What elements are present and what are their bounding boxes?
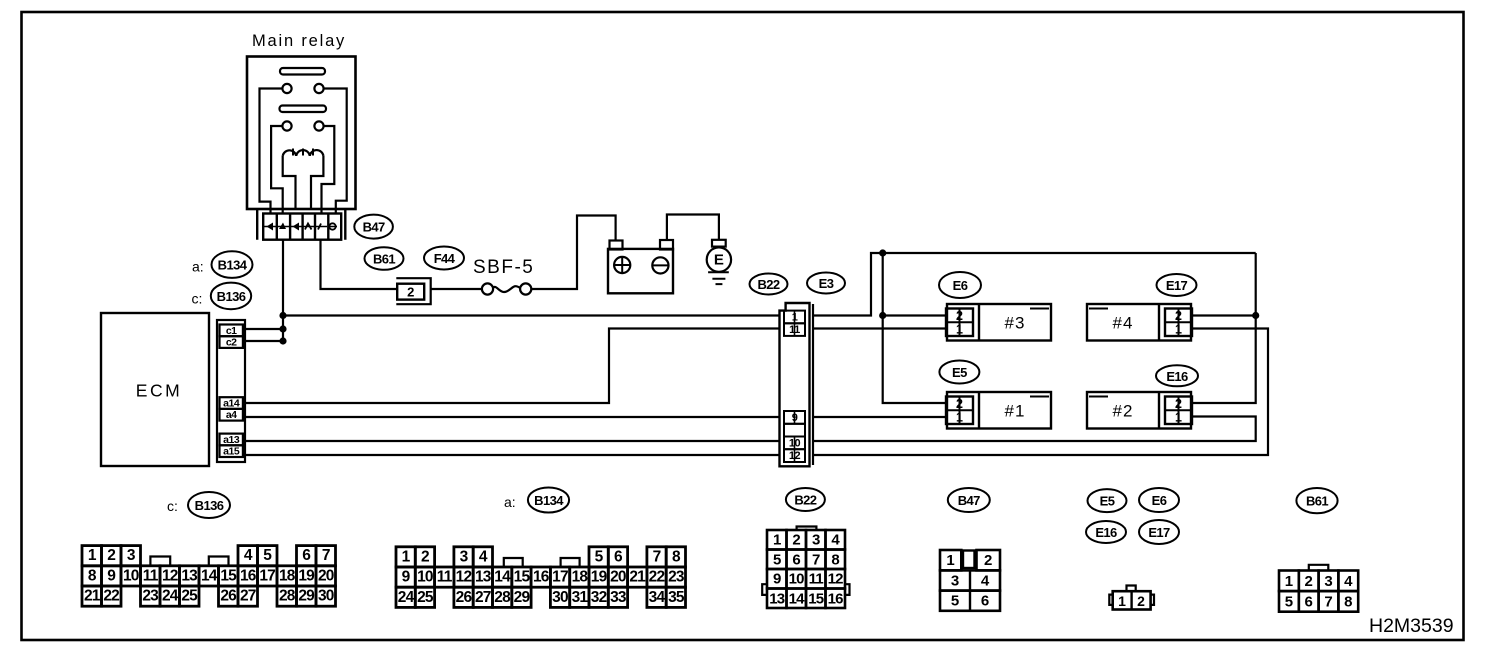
- svg-text:E: E: [714, 252, 724, 269]
- relay coil: [283, 150, 324, 156]
- svg-text:27: 27: [475, 589, 491, 606]
- svg-text:18: 18: [572, 569, 589, 586]
- svg-text:12: 12: [162, 567, 178, 584]
- battery: [608, 249, 673, 293]
- svg-text:21: 21: [84, 588, 101, 605]
- svg-text:14: 14: [494, 569, 511, 586]
- svg-text:12: 12: [456, 569, 472, 586]
- svg-text:F44: F44: [434, 251, 456, 266]
- wire battery - to ground: [667, 215, 719, 241]
- svg-text:B134: B134: [218, 258, 248, 273]
- svg-text:B47: B47: [363, 220, 385, 235]
- svg-text:33: 33: [610, 589, 627, 606]
- svg-text:a:: a:: [192, 259, 204, 275]
- B22 pin 11: [784, 323, 805, 336]
- relay box: [247, 57, 356, 210]
- svg-text:H2M3539: H2M3539: [1369, 615, 1454, 637]
- svg-text:23: 23: [668, 569, 685, 586]
- svg-text:B47: B47: [958, 493, 980, 508]
- svg-text:c2: c2: [226, 337, 237, 349]
- svg-text:6: 6: [614, 548, 623, 565]
- svg-text:a:: a:: [504, 494, 516, 510]
- svg-text:ECM: ECM: [136, 381, 182, 401]
- wire B22 pin12 to injector 4 pin 1: [813, 329, 1268, 456]
- svg-text:c:: c:: [167, 498, 178, 514]
- injector #2 (E16): [1087, 392, 1191, 429]
- svg-text:13: 13: [181, 567, 198, 584]
- svg-text:25: 25: [181, 588, 198, 605]
- label B22 (bottom): [786, 488, 825, 511]
- svg-text:7: 7: [1324, 593, 1332, 610]
- wire fuse to battery +: [531, 216, 615, 290]
- svg-text:22: 22: [649, 569, 665, 586]
- svg-text:E17: E17: [1166, 278, 1188, 293]
- svg-text:13: 13: [475, 569, 492, 586]
- svg-text:1: 1: [792, 311, 798, 323]
- svg-text:2: 2: [956, 397, 963, 411]
- svg-text:2: 2: [1175, 309, 1182, 323]
- svg-text:1: 1: [956, 323, 963, 337]
- relay coil body and fork legs: [283, 156, 324, 209]
- ground terminal E: [712, 240, 726, 247]
- svg-text:12: 12: [789, 450, 801, 462]
- svg-text:11: 11: [143, 567, 159, 584]
- fuse SBF-5: [482, 283, 493, 294]
- relay connector housing sides: [257, 209, 345, 240]
- relay connector strip: [263, 214, 341, 240]
- svg-text:17: 17: [552, 569, 568, 586]
- battery - terminal: [660, 240, 673, 250]
- svg-text:E5: E5: [1100, 494, 1115, 509]
- svg-text:21: 21: [629, 569, 646, 586]
- svg-text:2: 2: [792, 532, 800, 549]
- svg-text:16: 16: [828, 590, 844, 607]
- ECM pin c1: [220, 325, 243, 337]
- svg-text:B134: B134: [534, 493, 564, 508]
- relay wire contact2-left to pin: [271, 126, 283, 213]
- wire B22 pin1 up to top bus: [813, 253, 1256, 316]
- svg-text:15: 15: [514, 569, 531, 586]
- svg-text:5: 5: [595, 548, 604, 565]
- inline connector pin 2 (F44) bracket: [396, 278, 430, 304]
- svg-text:1: 1: [1118, 593, 1126, 609]
- svg-text:8: 8: [831, 551, 839, 568]
- svg-text:B22: B22: [794, 493, 816, 508]
- svg-text:2: 2: [407, 285, 414, 300]
- svg-text:11: 11: [789, 324, 800, 336]
- svg-text:3: 3: [951, 573, 959, 590]
- relay wire contact1-right to pin: [324, 89, 347, 214]
- label B47 (bottom): [948, 488, 990, 512]
- relay wire contact2-right to pin: [322, 126, 335, 213]
- svg-text:29: 29: [298, 588, 315, 605]
- svg-text:16: 16: [240, 567, 257, 584]
- svg-text:E5: E5: [952, 365, 967, 380]
- B22 pin 12: [784, 449, 805, 462]
- ECM pin a13: [220, 434, 243, 446]
- svg-text:7: 7: [812, 551, 820, 568]
- B134 index tabs: [504, 558, 523, 567]
- battery - symbol: [652, 257, 668, 273]
- svg-text:10: 10: [123, 567, 139, 584]
- relay wire contact1-left to pin: [260, 89, 283, 214]
- svg-text:2: 2: [1175, 397, 1182, 411]
- wire a14 to B22 pin 11: [243, 329, 779, 404]
- wire power bus junction A to B22 pin 1: [283, 314, 779, 316]
- label E5: [939, 361, 979, 384]
- svg-text:3: 3: [127, 547, 136, 564]
- svg-text:E17: E17: [1148, 525, 1170, 540]
- svg-text:15: 15: [808, 590, 824, 607]
- svg-text:16: 16: [533, 569, 550, 586]
- wire B22 pin11 to injector 3 pin 1: [813, 327, 946, 329]
- svg-text:10: 10: [417, 569, 433, 586]
- svg-text:6: 6: [792, 551, 800, 568]
- svg-text:34: 34: [649, 589, 666, 606]
- wire a4 to B22 pin 9: [243, 416, 779, 418]
- ECM pin a14: [220, 397, 243, 409]
- wire a15 to B22 pin 12: [243, 454, 779, 456]
- svg-text:8: 8: [88, 567, 97, 584]
- svg-text:5: 5: [951, 593, 959, 610]
- svg-text:5: 5: [773, 551, 781, 568]
- svg-text:8: 8: [1344, 593, 1352, 610]
- relay contact bar 1: [280, 68, 325, 75]
- svg-text:5: 5: [1285, 593, 1293, 610]
- svg-text:18: 18: [279, 567, 296, 584]
- connector B47 pinout: [940, 550, 961, 570]
- connector label F44: [424, 247, 464, 270]
- B61 pinout tab: [1309, 565, 1329, 571]
- ECM pin a15: [220, 445, 243, 457]
- B22 pin (blank): [784, 424, 805, 437]
- svg-text:2: 2: [984, 552, 992, 569]
- wire c1 to junction: [243, 328, 283, 330]
- svg-text:22: 22: [103, 588, 119, 605]
- svg-text:E6: E6: [1152, 493, 1167, 508]
- wire a13 to B22 pin 10: [243, 440, 779, 442]
- svg-text:4: 4: [479, 548, 488, 565]
- svg-text:Main relay: Main relay: [252, 32, 346, 50]
- svg-text:28: 28: [279, 588, 296, 605]
- junction dots at A: [279, 312, 286, 319]
- inline connector pin 2 box: [397, 284, 424, 300]
- svg-text:1: 1: [956, 411, 963, 425]
- svg-text:2: 2: [1137, 593, 1145, 609]
- wire B22 pin9 to injector 1 pin 1: [813, 416, 946, 418]
- svg-text:8: 8: [672, 548, 681, 565]
- svg-text:19: 19: [298, 567, 315, 584]
- connector E17 2x2 pin grid: [1165, 309, 1192, 337]
- svg-text:10: 10: [789, 437, 801, 449]
- svg-text:B61: B61: [373, 252, 395, 267]
- svg-text:#2: #2: [1113, 401, 1134, 420]
- connector B61 pinout: [1279, 571, 1299, 592]
- wire relay pin5 to fuse connector: [321, 240, 397, 289]
- wire fuse connector to SBF-5: [431, 288, 482, 290]
- svg-text:2: 2: [107, 547, 115, 564]
- svg-text:9: 9: [792, 412, 798, 424]
- svg-text:26: 26: [220, 588, 237, 605]
- B22 pin 1: [784, 311, 805, 324]
- svg-text:2: 2: [956, 309, 963, 323]
- B22 pin 9: [784, 411, 805, 424]
- svg-text:4: 4: [244, 547, 253, 564]
- wire right junction to injector 4 pin 2: [1192, 314, 1256, 316]
- svg-text:24: 24: [162, 588, 179, 605]
- svg-text:5: 5: [263, 547, 272, 564]
- inline connector B22 strip: [780, 303, 810, 466]
- svg-text:4: 4: [981, 573, 990, 590]
- svg-text:14: 14: [201, 567, 218, 584]
- B22 pinout tabs: [797, 527, 817, 531]
- svg-text:#4: #4: [1113, 313, 1134, 332]
- connector label B47: [354, 215, 393, 239]
- svg-text:26: 26: [456, 589, 473, 606]
- svg-text:3: 3: [460, 548, 469, 565]
- svg-text:6: 6: [981, 593, 989, 610]
- svg-text:28: 28: [494, 589, 511, 606]
- connector E6 2x2 pin grid: [946, 309, 973, 337]
- svg-text:2: 2: [1305, 573, 1313, 590]
- junction dot top bus: [879, 249, 886, 256]
- svg-text:23: 23: [142, 588, 159, 605]
- svg-text:7: 7: [322, 547, 330, 564]
- ECM box: [101, 313, 209, 466]
- svg-text:#3: #3: [1005, 313, 1026, 332]
- svg-text:2: 2: [421, 548, 429, 565]
- svg-text:a4: a4: [226, 409, 237, 421]
- junction dot right bus/injector4: [1252, 312, 1259, 319]
- battery + symbol: [614, 257, 630, 273]
- relay strip pin symbols: [264, 226, 337, 228]
- svg-text:6: 6: [302, 547, 311, 564]
- connector B22 pinout: [767, 530, 787, 550]
- label E17: [1157, 274, 1197, 296]
- svg-text:B61: B61: [1306, 494, 1328, 509]
- svg-text:1: 1: [1175, 323, 1182, 337]
- connector E (2-pin) pinout: [1113, 591, 1151, 609]
- svg-text:a13: a13: [223, 434, 240, 446]
- svg-text:1: 1: [88, 547, 97, 564]
- svg-text:3: 3: [812, 532, 820, 549]
- battery + terminal: [610, 241, 623, 250]
- svg-text:19: 19: [591, 569, 608, 586]
- svg-text:9: 9: [402, 569, 411, 586]
- svg-text:30: 30: [552, 589, 568, 606]
- wire relay pin2 to junction A (power bus): [282, 240, 284, 341]
- svg-text:3: 3: [1324, 573, 1332, 590]
- svg-text:a14: a14: [223, 398, 240, 410]
- labels E5 E6 E16 E17 (bottom): [1088, 489, 1127, 512]
- svg-text:29: 29: [514, 589, 531, 606]
- svg-text:#1: #1: [1005, 401, 1026, 420]
- ECM connector strip: [217, 320, 245, 462]
- svg-text:32: 32: [591, 589, 607, 606]
- svg-text:1: 1: [773, 532, 781, 549]
- svg-text:7: 7: [653, 548, 661, 565]
- svg-text:12: 12: [828, 571, 844, 588]
- svg-text:30: 30: [318, 588, 334, 605]
- svg-text:13: 13: [769, 590, 785, 607]
- connector E3 label: [807, 273, 845, 294]
- svg-text:25: 25: [417, 589, 434, 606]
- svg-text:14: 14: [789, 590, 806, 607]
- relay contact 1 terminals: [282, 84, 291, 93]
- relay contact 2 terminals: [282, 121, 291, 130]
- svg-text:27: 27: [240, 588, 256, 605]
- svg-text:9: 9: [773, 571, 781, 588]
- svg-text:11: 11: [809, 571, 824, 588]
- svg-text:B136: B136: [217, 289, 246, 304]
- svg-text:1: 1: [402, 548, 411, 565]
- svg-text:20: 20: [610, 569, 626, 586]
- svg-text:c1: c1: [226, 325, 237, 337]
- connector B136 pinout: [82, 546, 102, 566]
- B22 pin 10: [784, 437, 805, 450]
- svg-text:11: 11: [437, 569, 453, 586]
- connector B134 pinout: [396, 547, 415, 567]
- svg-text:10: 10: [789, 571, 805, 588]
- svg-text:E3: E3: [819, 276, 834, 291]
- label B61 (bottom): [1296, 488, 1337, 513]
- svg-text:E16: E16: [1095, 525, 1117, 540]
- injector #3 (E6): [947, 304, 1051, 341]
- injector #4 (E17): [1087, 304, 1191, 341]
- relay contact bar 2: [280, 106, 327, 113]
- svg-text:E16: E16: [1166, 369, 1188, 384]
- svg-text:SBF-5: SBF-5: [473, 257, 534, 278]
- svg-text:B136: B136: [195, 498, 224, 513]
- wire top bus feed down (x=882.7): [883, 253, 946, 403]
- label E16: [1156, 365, 1198, 386]
- connector E5 2x2 pin grid: [946, 397, 973, 425]
- svg-text:35: 35: [668, 589, 685, 606]
- connector label B61: [365, 247, 404, 270]
- connector E16 2x2 pin grid: [1165, 397, 1192, 425]
- wire feed to injector 3 pin 2: [883, 314, 946, 316]
- label E6: [939, 272, 981, 298]
- svg-text:31: 31: [572, 589, 589, 606]
- wire c2 to junction: [243, 340, 283, 342]
- svg-text:1: 1: [946, 552, 954, 569]
- svg-text:1: 1: [1285, 573, 1293, 590]
- svg-text:4: 4: [1344, 573, 1353, 590]
- svg-text:6: 6: [1305, 593, 1313, 610]
- injector #1 (E5): [947, 392, 1051, 429]
- svg-text:B22: B22: [757, 277, 779, 292]
- svg-text:9: 9: [107, 567, 116, 584]
- connector B22 label (top): [750, 274, 788, 295]
- svg-text:15: 15: [220, 567, 237, 584]
- wire B22 pin10 to injector 2 pin 1 (U-turn): [813, 417, 1256, 442]
- junction dot feed/injector3: [879, 312, 886, 319]
- wire top bus down right side to injector 4 pin 2 and injector 2 pin 2: [1192, 253, 1256, 403]
- ECM pin a4: [220, 409, 243, 421]
- B136 index tabs: [150, 557, 170, 566]
- svg-text:E6: E6: [953, 278, 968, 293]
- svg-text:20: 20: [318, 567, 334, 584]
- svg-text:17: 17: [259, 567, 275, 584]
- ECM pin c2: [220, 336, 243, 348]
- svg-text:c:: c:: [192, 291, 203, 307]
- svg-text:24: 24: [398, 589, 415, 606]
- svg-text:1: 1: [1175, 411, 1182, 425]
- ground bars: [708, 272, 729, 284]
- svg-text:a15: a15: [223, 446, 240, 458]
